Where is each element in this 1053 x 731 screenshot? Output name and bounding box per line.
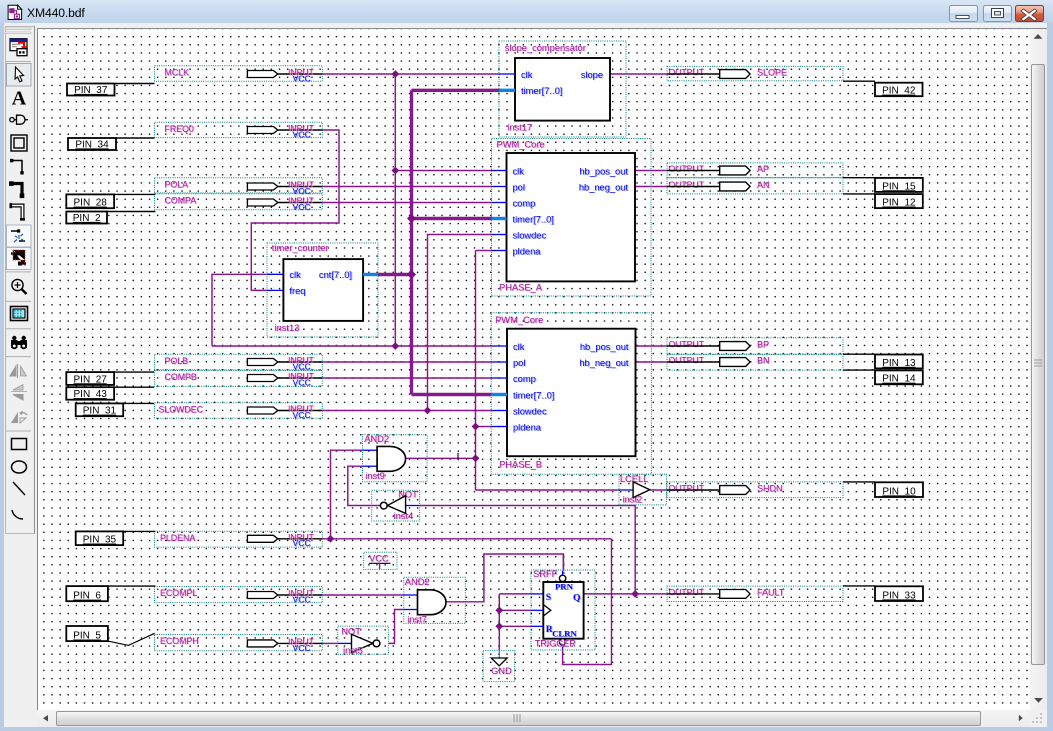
wire SRFF CLRN to PLDENA net: [563, 539, 612, 665]
input port COMPB: [155, 371, 323, 388]
toolbar zoom tool: [12, 279, 27, 294]
wire BP to PIN_13: [843, 353, 875, 355]
wire net COMPA to PHASE_A comp: [322, 202, 491, 204]
node junction on Q net: [631, 590, 639, 598]
wire to SRFF S input: [499, 593, 531, 595]
wire AN to PIN_12: [843, 193, 875, 195]
svg-text:timer[7..0]: timer[7..0]: [513, 390, 554, 400]
node junction pldena at PHASE_B: [472, 423, 480, 431]
pin location box PIN_2: [66, 212, 107, 224]
block timer_counter inst13: [267, 243, 378, 337]
svg-text:comp: comp: [513, 374, 536, 384]
node junction at clock input: [495, 606, 503, 614]
svg-text:timer_counter: timer_counter: [272, 243, 329, 253]
block slope_compensator U inst17: [499, 41, 626, 137]
toolbar separator: [6, 328, 31, 330]
wire branch PHASE_A pldena: [476, 250, 492, 252]
toolbar symbol tool: [10, 115, 28, 124]
not-gate NOT inst4 mirrored: [372, 490, 420, 521]
wire NOT inst5 output to AND2 inst7 lower input: [388, 610, 403, 644]
wire pin PIN_37 to MCLK: [115, 83, 155, 85]
output port BP: [667, 338, 843, 354]
pin location box PIN_37: [67, 84, 115, 96]
svg-text:timer[7..0]: timer[7..0]: [513, 214, 554, 224]
wire SHDN to PIN_10: [843, 481, 875, 483]
toolbar arc tool: [12, 510, 23, 519]
close glyph: [1021, 9, 1037, 21]
wire MCLK branch to PHASE_A clk: [395, 170, 491, 172]
wire NOT inst4 output to AND2 inst9 lower input: [348, 466, 381, 505]
wire pldena vertical distribution: [475, 251, 477, 491]
svg-text:MCLK: MCLK: [165, 67, 190, 77]
svg-text:ECOMPH: ECOMPH: [160, 636, 199, 646]
ground GND symbol: [483, 650, 515, 681]
wire PLDENA up to AND2 inst9 input: [331, 450, 364, 539]
wire SLOWDEC branch up to PHASE_A slowdec: [428, 235, 492, 411]
svg-text:AN: AN: [757, 180, 770, 190]
wire net FREQ0 to timer_counter freq: [251, 130, 339, 290]
node junction pldena at AND2 output: [472, 454, 480, 462]
svg-text:AP: AP: [757, 164, 769, 174]
svg-text:PIN_12: PIN_12: [882, 198, 916, 209]
svg-text:COMPB: COMPB: [165, 372, 197, 382]
svg-text:PIN_27: PIN_27: [74, 374, 108, 385]
svg-text:SRFF: SRFF: [533, 569, 558, 579]
wire to timer_counter clk: [212, 274, 268, 346]
svg-text:PIN_34: PIN_34: [75, 139, 109, 150]
titlebar document icon: [8, 5, 22, 19]
input port SLOWDEC: [155, 403, 323, 420]
toolbar text tool: [12, 88, 27, 110]
vscroll thumb grips: [1034, 360, 1042, 366]
wire net COMPB to PHASE_B comp: [322, 377, 491, 379]
svg-text:PIN_33: PIN_33: [882, 590, 916, 601]
hscroll thumb grips: [514, 714, 520, 722]
svg-text:BN: BN: [757, 355, 770, 365]
output port AP: [667, 163, 843, 178]
svg-text:timer[7..0]: timer[7..0]: [521, 86, 562, 96]
wire pin PIN_31: [123, 402, 154, 404]
wire PHASE_A hb_pos_out to AP: [635, 170, 667, 172]
toolbar separator: [6, 356, 31, 358]
svg-text:PLDENA: PLDENA: [160, 533, 195, 543]
wire AP to PIN_15: [843, 177, 875, 179]
svg-text:VCC: VCC: [293, 643, 311, 653]
svg-text:inst4: inst4: [394, 511, 414, 521]
maximize glyph: [992, 9, 1004, 18]
svg-text:OUTPUT: OUTPUT: [669, 483, 705, 493]
wire FAULT to PIN_33: [843, 585, 875, 587]
node bus junction PHASE_A timer: [407, 214, 416, 223]
svg-text:A: A: [12, 88, 27, 110]
svg-text:FREQ0: FREQ0: [165, 124, 194, 134]
wire PHASE_B hb_neg_out to BN: [636, 361, 668, 363]
toolbar partial bus selection button: [7, 248, 32, 270]
wire AND2 inst7 output to SRFF PRN: [446, 554, 563, 602]
svg-text:OUTPUT: OUTPUT: [669, 164, 705, 174]
svg-text:PIN_43: PIN_43: [74, 389, 108, 400]
node junction PHASE_B clk: [391, 342, 399, 350]
output port FAULT: [667, 586, 843, 601]
toolbar orthogonal node tool: [10, 159, 24, 175]
input port FREQ0: [155, 122, 323, 139]
toolbar line tool: [13, 482, 25, 495]
toolbar rotate (disabled): [11, 411, 27, 424]
svg-text:OUTPUT: OUTPUT: [669, 339, 705, 349]
pin location box PIN_27: [66, 372, 114, 385]
pin location box PIN_6: [66, 586, 108, 602]
bus branch to PHASE_B timer: [412, 393, 492, 396]
wire pin PIN_5 freeform: [108, 633, 155, 645]
svg-text:clk: clk: [513, 166, 525, 176]
output port SLOPE: [667, 66, 843, 80]
svg-text:inst17: inst17: [507, 122, 532, 132]
maximize button: [983, 5, 1012, 22]
svg-text:hb_pos_out: hb_pos_out: [580, 342, 629, 352]
svg-text:ECOMPL: ECOMPL: [160, 588, 197, 598]
wire branch to LCELL input: [476, 489, 620, 491]
input port POLB: [155, 354, 323, 371]
output port SHDN: [667, 482, 843, 498]
svg-text:comp: comp: [513, 198, 536, 208]
bus from timer_counter cnt output: [378, 273, 412, 276]
svg-text:PIN_42: PIN_42: [882, 86, 916, 97]
svg-text:TRIGGER: TRIGGER: [535, 638, 577, 648]
output port BN: [667, 354, 843, 370]
svg-text:slope_compensator: slope_compensator: [505, 43, 586, 53]
toolbar flip vertical (disabled): [11, 385, 27, 401]
svg-text:Q: Q: [573, 593, 580, 603]
wire ECOMPL to AND2 inst7 upper input: [322, 594, 404, 596]
svg-text:S: S: [546, 593, 551, 603]
input port POLA: [155, 178, 323, 196]
wire PRN stub purple: [562, 554, 564, 571]
svg-text:PIN_15: PIN_15: [882, 181, 916, 192]
pin location box PIN_14: [875, 370, 923, 384]
toolbar block tool: [11, 135, 27, 151]
svg-text:PIN_5: PIN_5: [73, 631, 101, 642]
svg-text:BP: BP: [757, 339, 769, 349]
input port ECOMPH: [155, 635, 323, 653]
wire PHASE_A hb_neg_out to AN: [635, 186, 667, 188]
svg-text:VCC: VCC: [293, 73, 311, 83]
svg-text:PIN_28: PIN_28: [74, 198, 108, 209]
toolbar orthogonal bus tool: [9, 181, 24, 198]
svg-text:CLRN: CLRN: [552, 629, 577, 639]
svg-text:clk: clk: [521, 70, 533, 80]
toolbar rectangle tool: [12, 439, 27, 450]
pin location box PIN_33: [875, 586, 923, 601]
node junction at R input: [495, 622, 503, 630]
toolbar separator: [6, 61, 31, 63]
toolbar flip horizontal (disabled): [10, 364, 27, 378]
svg-text:AND2: AND2: [405, 577, 430, 587]
wire pin PIN_27: [114, 371, 154, 373]
toolbar oval tool: [12, 461, 27, 473]
svg-text:PIN_37: PIN_37: [74, 85, 108, 96]
wire MCLK branch to PHASE_B clk and timer_counter: [212, 345, 492, 347]
node junction PHASE_A clk: [391, 167, 399, 175]
toolbar selection tool button (active): [7, 64, 32, 87]
svg-text:POLA: POLA: [165, 179, 189, 189]
buffer LCELL inst2: [619, 474, 667, 505]
svg-text:inst9: inst9: [365, 471, 385, 481]
window title bar: [0, 0, 1053, 23]
pin location box PIN_28: [66, 194, 114, 208]
svg-text:PIN_14: PIN_14: [882, 374, 916, 385]
toolbar fullscreen tool: [11, 307, 28, 321]
pin location box PIN_43: [66, 387, 114, 400]
toolbar separator: [6, 300, 31, 302]
svg-text:inst7: inst7: [407, 615, 427, 625]
svg-text:GND: GND: [491, 666, 512, 676]
svg-text:cnt[7..0]: cnt[7..0]: [319, 270, 352, 280]
toolbar separator: [6, 430, 31, 432]
svg-text:PIN_35: PIN_35: [83, 535, 117, 546]
node junction PLDENA: [327, 535, 335, 543]
svg-text:VCC: VCC: [293, 186, 311, 196]
wire PHASE_B hb_pos_out to BP: [636, 345, 668, 347]
svg-text:OUTPUT: OUTPUT: [669, 180, 705, 190]
pin location box PIN_34: [68, 138, 116, 150]
svg-text:hb_neg_out: hb_neg_out: [579, 182, 629, 192]
node bus junction cnt join: [407, 270, 416, 279]
svg-text:PIN_13: PIN_13: [882, 358, 916, 369]
svg-text:VCC: VCC: [369, 553, 389, 563]
svg-text:SLOWDEC: SLOWDEC: [159, 404, 204, 414]
svg-text:VCC: VCC: [293, 202, 311, 212]
wire net MCLK vertical trunk: [394, 74, 396, 346]
svg-text:VCC: VCC: [293, 538, 311, 548]
minimize button: [949, 5, 978, 22]
wire pin PIN_2: [107, 211, 155, 213]
wire to SRFF R input: [499, 625, 531, 627]
svg-text:pol: pol: [513, 182, 525, 192]
wire SLOPE to PIN_42: [843, 80, 875, 82]
svg-text:inst5: inst5: [343, 645, 363, 655]
toolbar panel: [5, 26, 35, 534]
net name tick on inst9 output wire: [457, 453, 459, 460]
wire SRFF Q output to FAULT: [584, 593, 667, 595]
wire pin PIN_28: [114, 193, 155, 195]
svg-text:inst13: inst13: [275, 323, 300, 333]
wire Q feedback up to NOT inst4 input: [420, 506, 636, 594]
wire AND2 inst9 output to pldena net: [406, 457, 476, 459]
wire S-R-clock tie vertical to GND: [498, 594, 500, 651]
wire net POLB to PHASE_B pol: [322, 361, 491, 363]
pin location box PIN_10: [875, 482, 923, 497]
wire net POLA to PHASE_A pol: [322, 186, 491, 188]
svg-text:slowdec: slowdec: [513, 230, 547, 240]
toolbar partial line selection button: [7, 225, 32, 247]
close button: [1015, 5, 1044, 22]
svg-text:AND2: AND2: [364, 434, 389, 444]
svg-text:clk: clk: [513, 342, 525, 352]
bus timer[7..0] vertical trunk: [410, 90, 413, 394]
pin location box PIN_13: [875, 355, 923, 369]
svg-text:clk: clk: [289, 270, 301, 280]
wire ECOMPH to NOT inst5: [322, 642, 338, 644]
wire pin PIN_34 to FREQ0: [116, 137, 155, 139]
node junction SLOWDEC: [424, 407, 432, 415]
svg-text:OUTPUT: OUTPUT: [669, 67, 705, 77]
wire branch PHASE_B pldena: [476, 426, 492, 428]
svg-text:OUTPUT: OUTPUT: [669, 587, 705, 597]
wire net MCLK horizontal from INPUT to slope_compensator clk: [322, 73, 499, 75]
bus branch to slope_compensator timer: [412, 89, 501, 92]
pin location box PIN_42: [875, 83, 923, 97]
svg-text:VCC: VCC: [293, 377, 311, 387]
power VCC symbol: [364, 552, 397, 569]
svg-text:PIN_6: PIN_6: [73, 591, 101, 602]
input port MCLK: [155, 66, 323, 84]
flip-flop SRFF TRIGGER: [531, 569, 595, 650]
svg-text:PHASE_B: PHASE_B: [499, 459, 542, 469]
svg-text:VCC: VCC: [293, 361, 311, 371]
svg-text:PIN_31: PIN_31: [83, 406, 117, 417]
svg-text:pol: pol: [513, 358, 525, 368]
toolbar separator: [6, 271, 31, 273]
toolbar find tool: [11, 336, 27, 349]
wire slope output to SLOPE port: [610, 73, 667, 75]
svg-text:PIN_2: PIN_2: [73, 213, 101, 224]
toolbar icon detach window: [10, 39, 27, 56]
toolbar icons: [5, 28, 31, 519]
input port ECOMPL: [155, 587, 323, 605]
pin location box PIN_35: [76, 531, 124, 545]
block PWM_Core PHASE_B: [491, 313, 651, 474]
pin location box PIN_15: [875, 178, 923, 192]
toolbar orthogonal conduit tool: [10, 203, 26, 220]
vertical scrollbar: [1030, 28, 1047, 710]
corner resize grip: [1032, 713, 1042, 723]
svg-text:VCC: VCC: [293, 129, 311, 139]
svg-text:PWM_Core: PWM_Core: [497, 139, 545, 149]
wire net SLOWDEC to PHASE_B slowdec: [322, 410, 491, 412]
and-gate AND2 inst7: [404, 577, 466, 625]
toolbar gripper: [5, 28, 31, 30]
block PWM_Core PHASE_A: [492, 139, 652, 297]
svg-text:PWM_Core: PWM_Core: [495, 315, 543, 325]
horizontal scrollbar: [37, 710, 1029, 727]
wire pin PIN_6: [108, 585, 155, 587]
pin location box PIN_12: [875, 194, 923, 208]
svg-text:OUTPUT: OUTPUT: [669, 355, 705, 365]
output port AN: [667, 178, 843, 194]
svg-text:hb_pos_out: hb_pos_out: [579, 166, 628, 176]
wire BN to PIN_14: [843, 369, 875, 371]
wire LCELL output to SHDN: [650, 489, 667, 491]
svg-text:PRN: PRN: [555, 581, 574, 591]
svg-text:PIN_10: PIN_10: [882, 486, 916, 497]
pin location box PIN_5: [66, 626, 108, 642]
wire net PLDENA horizontal: [322, 538, 611, 540]
wire pin PIN_35: [123, 530, 155, 532]
not-gate NOT inst5: [338, 626, 389, 655]
svg-text:POLB: POLB: [165, 356, 189, 366]
svg-text:pldena: pldena: [513, 246, 542, 256]
svg-text:hb_neg_out: hb_neg_out: [579, 358, 629, 368]
wire pin PIN_43: [114, 386, 154, 388]
wire to SRFF clock input: [499, 609, 531, 611]
svg-text:SLOPE: SLOPE: [757, 67, 787, 77]
pin location box PIN_31: [76, 403, 124, 416]
svg-text:PHASE_A: PHASE_A: [499, 282, 543, 292]
svg-text:VCC: VCC: [293, 410, 311, 420]
input port COMPA: [155, 194, 323, 212]
svg-text:FAULT: FAULT: [757, 587, 785, 597]
svg-text:pldena: pldena: [513, 422, 542, 432]
svg-text:slope: slope: [581, 70, 603, 80]
minimize glyph: [956, 16, 969, 19]
svg-text:COMPA: COMPA: [165, 195, 197, 205]
svg-text:SHDN: SHDN: [757, 483, 783, 493]
input port PLDENA: [155, 531, 323, 548]
bus branch to PHASE_A timer: [412, 217, 492, 220]
svg-text:inst2: inst2: [623, 494, 643, 504]
svg-text:VCC: VCC: [293, 594, 311, 604]
svg-text:freq: freq: [289, 286, 305, 296]
and-gate AND2 inst9: [363, 434, 428, 482]
svg-text:slowdec: slowdec: [513, 406, 547, 416]
node MCLK junction at input wire: [391, 70, 399, 78]
